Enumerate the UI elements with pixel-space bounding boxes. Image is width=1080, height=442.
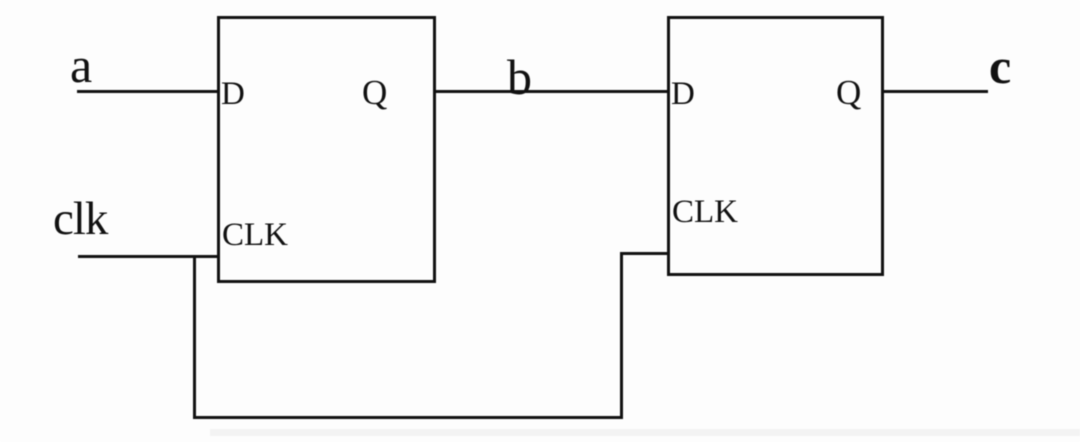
wire clk into U2	[620, 252, 668, 255]
node clk label	[53, 196, 107, 243]
pin CLK of U2	[672, 196, 738, 229]
pin Q of U2	[836, 75, 861, 110]
flip-flop U1	[217, 16, 436, 283]
pin Q of U1	[362, 75, 387, 110]
wire a input	[77, 90, 218, 93]
wire clk riser to U2	[620, 252, 623, 417]
node b label	[507, 52, 532, 102]
pin D of U2	[671, 78, 695, 111]
wire clk bottom run	[193, 416, 624, 419]
wire clk vertical drop	[193, 256, 196, 418]
wire c output	[882, 90, 988, 93]
pin D of U1	[221, 78, 245, 111]
pin CLK of U1	[222, 219, 288, 252]
wire b (U1.Q to U2.D)	[434, 90, 668, 93]
node a label	[70, 40, 92, 90]
wire clk input	[78, 255, 218, 258]
node c label	[989, 41, 1011, 91]
flip-flop U2	[667, 16, 884, 276]
